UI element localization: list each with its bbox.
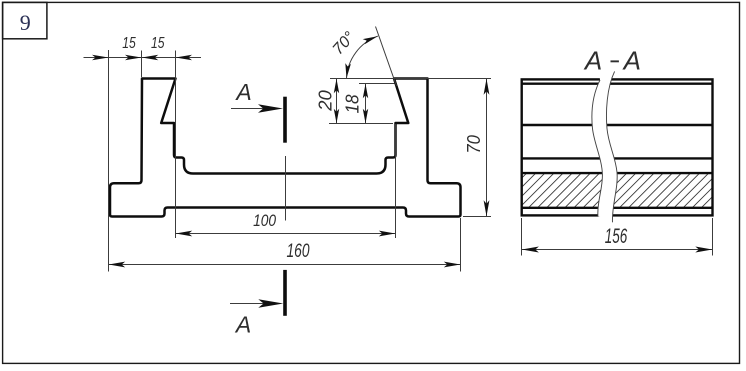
svg-text:160: 160	[287, 241, 310, 262]
svg-text:9: 9	[20, 10, 31, 35]
svg-text:A: A	[234, 79, 251, 105]
svg-text:18: 18	[343, 95, 363, 114]
svg-text:A: A	[234, 311, 251, 337]
svg-text:15: 15	[151, 35, 165, 52]
svg-text:A: A	[583, 46, 602, 76]
svg-text:15: 15	[122, 35, 136, 52]
svg-text:70: 70	[463, 135, 484, 154]
svg-text:A: A	[622, 46, 641, 76]
svg-text:100: 100	[253, 211, 276, 230]
svg-text:156: 156	[605, 225, 628, 248]
svg-text:20: 20	[315, 90, 336, 112]
